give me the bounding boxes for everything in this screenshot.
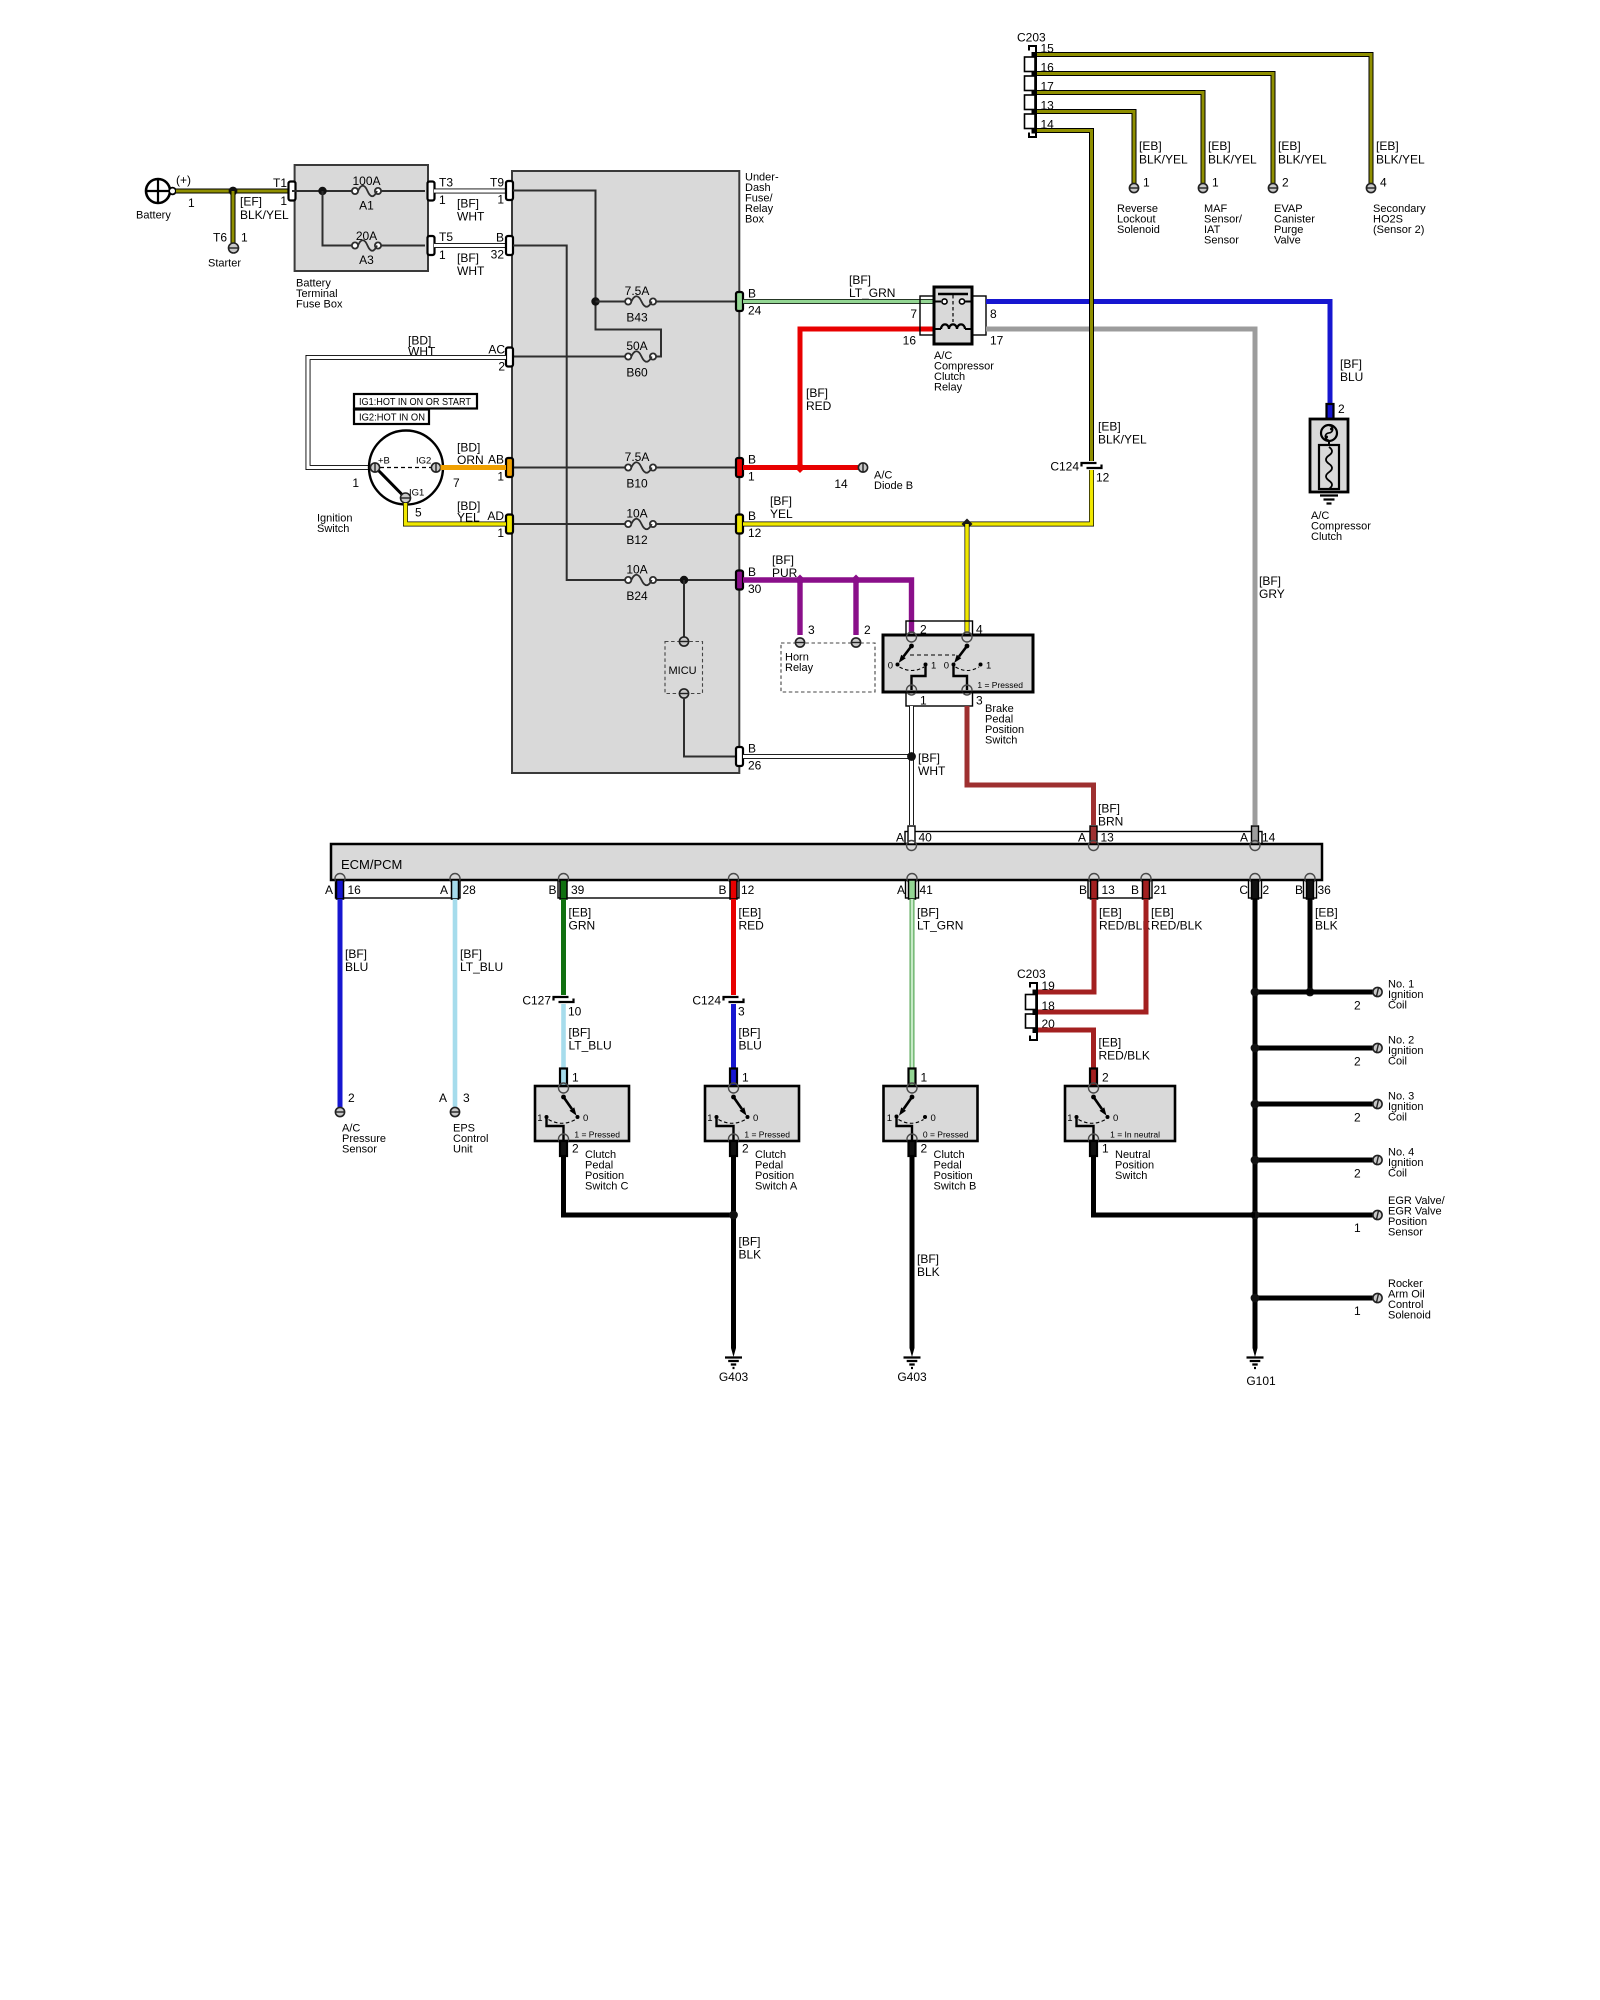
svg-text:Sensor: Sensor [342, 1144, 377, 1156]
wire C2 to G101 main (BLK) [1253, 899, 1258, 1348]
wire ignition +B to AC pin [BD] WHT [308, 334, 506, 468]
svg-text:B12: B12 [626, 533, 648, 547]
svg-text:1: 1 [352, 476, 359, 490]
svg-text:YEL: YEL [457, 511, 480, 525]
svg-text:41: 41 [920, 883, 934, 897]
svg-text:1: 1 [1354, 1221, 1361, 1235]
wire B12 pin to C124 [BF] YEL [743, 470, 1092, 524]
svg-text:BLK/YEL: BLK/YEL [1376, 153, 1425, 167]
wire junction to starter (BLK/YEL) [213, 191, 248, 245]
svg-text:[EB]: [EB] [1208, 139, 1231, 153]
wire: AD pin to fuse B12 [513, 523, 625, 525]
pin T9 [490, 176, 513, 207]
svg-text:3: 3 [738, 1005, 745, 1019]
svg-text:AB: AB [488, 453, 504, 467]
node: main junction No.1 [1251, 988, 1260, 997]
svg-text:WHT: WHT [918, 764, 946, 778]
svg-text:2: 2 [1354, 1111, 1361, 1125]
node: clutch ground junction [729, 1211, 738, 1220]
svg-text:Relay: Relay [785, 662, 814, 674]
svg-text:Clutch: Clutch [1311, 531, 1342, 543]
svg-text:(+): (+) [176, 173, 191, 187]
svg-text:Switch C: Switch C [585, 1181, 628, 1193]
ECM pin B21 [1131, 874, 1167, 900]
terminal T1 pin [273, 176, 296, 208]
pin B1 (RED out) [736, 453, 756, 484]
node: red junction [795, 462, 806, 473]
svg-text:26: 26 [748, 759, 762, 773]
svg-text:B: B [748, 509, 756, 523]
svg-text:AC: AC [488, 343, 505, 357]
node: MICU tap junction [680, 576, 688, 584]
svg-text:1: 1 [742, 1071, 749, 1085]
svg-text:3: 3 [976, 694, 983, 708]
svg-text:13: 13 [1101, 831, 1115, 845]
svg-text:1: 1 [920, 694, 927, 708]
wire clutch B pin2 to G403 [BF] BLK [912, 1156, 940, 1348]
pin B24 (LT_GRN out) [736, 287, 762, 318]
svg-text:[BF]: [BF] [457, 197, 479, 211]
svg-text:39: 39 [571, 883, 585, 897]
svg-text:1: 1 [439, 193, 446, 207]
svg-text:B: B [1079, 883, 1087, 897]
svg-text:BLK: BLK [1315, 919, 1338, 933]
svg-text:0: 0 [583, 1113, 588, 1124]
wire: B24 to pin B30 [656, 579, 736, 581]
wire T3 to T9 [BF] WHT [434, 191, 506, 224]
battery B1 [136, 179, 176, 222]
svg-text:Battery: Battery [136, 210, 171, 222]
node: purple junction 1 [795, 575, 806, 586]
wire brake pin3 to ECM A13 [BF] BRN [967, 706, 1123, 829]
svg-text:C127: C127 [522, 994, 551, 1008]
connector C203 (lower) [1017, 967, 1055, 1040]
No.1 ignition coil terminal [1354, 979, 1423, 1013]
svg-text:Sensor: Sensor [1388, 1227, 1423, 1239]
svg-text:[BF]: [BF] [918, 751, 940, 765]
No.4 ignition coil terminal [1354, 1147, 1423, 1181]
svg-text:2: 2 [348, 1091, 355, 1105]
svg-text:BLK/YEL: BLK/YEL [1139, 153, 1188, 167]
pin B30 (PUR out) [736, 565, 762, 596]
wire: junction down to A3 row [323, 191, 353, 246]
svg-text:[BF]: [BF] [345, 947, 367, 961]
node: fuse box interior junction [318, 187, 326, 195]
svg-text:Starter: Starter [208, 258, 241, 270]
svg-text:B60: B60 [626, 366, 648, 380]
node: B36 junction [1306, 988, 1315, 997]
neutral position switch [1065, 1083, 1175, 1144]
svg-text:B: B [748, 287, 756, 301]
clutch pedal position switch C [535, 1083, 629, 1144]
wire: A3 to T5 [381, 245, 425, 247]
svg-text:1: 1 [1354, 1304, 1361, 1318]
wire B13 to C203-19 [EB] RED/BLK [1038, 899, 1150, 992]
svg-text:T1: T1 [273, 176, 287, 190]
svg-text:RED: RED [739, 919, 765, 933]
wire B39 to C127 [EB] GRN [564, 899, 596, 995]
A/C compressor clutch relay [903, 287, 1004, 394]
svg-text:B24: B24 [626, 589, 648, 603]
wire clutch A pin2 to G403 [BF] BLK [734, 1156, 762, 1348]
svg-text:2: 2 [1102, 1071, 1109, 1085]
wire branch to No.4 ignition coil [1255, 1158, 1373, 1163]
svg-text:1 = In neutral: 1 = In neutral [1110, 1130, 1160, 1140]
node: main junction No.4 [1251, 1156, 1260, 1165]
svg-text:B43: B43 [626, 311, 648, 325]
wire relay pin8 to A/C clutch [BF] BLU [986, 302, 1363, 405]
node: main junction No.2 [1251, 1044, 1260, 1053]
node: battery/starter junction [229, 187, 238, 196]
node: main junction rocker [1251, 1294, 1260, 1303]
svg-text:17: 17 [990, 334, 1004, 348]
svg-text:AD: AD [487, 509, 504, 523]
svg-text:0 = Pressed: 0 = Pressed [923, 1130, 969, 1140]
wire brake pin1 to ECM A40 [BF] WHT [912, 706, 946, 825]
svg-text:Switch A: Switch A [755, 1181, 798, 1193]
wire IG2 to AB [BD] ORN [441, 441, 507, 468]
ECM pin C2 [1239, 874, 1269, 900]
ECM pin A13 [1078, 826, 1114, 851]
svg-text:Sensor: Sensor [1204, 235, 1239, 247]
clutch pedal position switch B [884, 1083, 978, 1144]
node: main junction No.3 [1251, 1100, 1260, 1109]
svg-text:A1: A1 [359, 199, 374, 213]
A/C pressure sensor terminal [335, 1091, 386, 1156]
ECM pin B39 [548, 874, 584, 900]
wire purple stub to horn relay 3 [797, 580, 802, 635]
terminal T5 pin [428, 230, 454, 262]
pin B12 (YEL out) [736, 509, 762, 540]
hot-in-run note boxes [354, 394, 477, 424]
svg-text:Coil: Coil [1388, 1056, 1407, 1068]
svg-text:1: 1 [748, 470, 755, 484]
svg-text:[EB]: [EB] [1278, 139, 1301, 153]
svg-text:[BF]: [BF] [1340, 357, 1362, 371]
ECM pin B36 [1295, 874, 1331, 900]
MICU unit [665, 637, 703, 698]
wire purple stub to horn relay 2 [853, 580, 858, 635]
svg-text:1: 1 [1143, 176, 1150, 190]
wire C203-14 to C124 (BLK/YEL) [1037, 131, 1147, 462]
wire: B12 to pin B12 [656, 523, 736, 525]
svg-text:B: B [1295, 883, 1303, 897]
svg-text:Solenoid: Solenoid [1388, 1310, 1431, 1322]
svg-text:8: 8 [990, 307, 997, 321]
wire: junction down to MICU [683, 580, 685, 637]
svg-text:19: 19 [1042, 979, 1056, 993]
node: white wire junction [907, 752, 916, 761]
svg-text:13: 13 [1102, 883, 1116, 897]
svg-text:BLK/YEL: BLK/YEL [1098, 433, 1147, 447]
svg-text:BLK/YEL: BLK/YEL [240, 208, 289, 222]
wire B21 to C203-18 [EB] RED/BLK [1038, 899, 1202, 1012]
svg-text:LT_BLU: LT_BLU [569, 1039, 612, 1053]
ground G101 [1246, 1348, 1276, 1388]
svg-text:2: 2 [864, 623, 871, 637]
svg-text:A: A [1240, 831, 1248, 845]
svg-text:16: 16 [903, 334, 917, 348]
fuse A1 100A [352, 174, 381, 213]
svg-text:Relay: Relay [934, 382, 963, 394]
wire T5 to B32 [BF] WHT [434, 246, 506, 279]
svg-text:G403: G403 [719, 1370, 749, 1384]
svg-text:Unit: Unit [453, 1144, 473, 1156]
fuse B43 7.5A [625, 284, 656, 325]
svg-text:BLU: BLU [739, 1039, 762, 1053]
svg-text:1: 1 [188, 196, 195, 210]
svg-text:BLK: BLK [917, 1265, 940, 1279]
svg-text:[EB]: [EB] [1139, 139, 1162, 153]
svg-text:YEL: YEL [770, 507, 793, 521]
svg-text:1: 1 [537, 1113, 542, 1124]
svg-text:2: 2 [572, 1142, 579, 1156]
svg-text:2: 2 [1354, 1167, 1361, 1181]
ECM lower frame B13-B21 [1088, 880, 1152, 898]
svg-text:Coil: Coil [1388, 1000, 1407, 1012]
node: purple junction 2 [851, 575, 862, 586]
svg-text:C: C [1239, 883, 1248, 897]
svg-text:GRN: GRN [569, 919, 596, 933]
svg-text:Coil: Coil [1388, 1112, 1407, 1124]
svg-text:BLU: BLU [1340, 370, 1363, 384]
svg-text:20A: 20A [356, 229, 377, 243]
svg-text:Switch: Switch [317, 523, 349, 535]
wire: A1 to T3 [381, 190, 425, 192]
svg-text:[BF]: [BF] [457, 251, 479, 265]
wire IG1 to AD [BD] YEL [406, 499, 507, 525]
svg-text:2: 2 [1263, 883, 1270, 897]
fuse B12 10A [625, 507, 656, 548]
svg-text:IG1:HOT IN ON OR START: IG1:HOT IN ON OR START [359, 396, 472, 408]
ECM lower frame A41 [906, 880, 919, 898]
ignition switch [317, 431, 460, 536]
ECM pin A16 [325, 874, 361, 900]
connector C124 (inline, BLK/YEL to YEL) [1050, 460, 1109, 485]
svg-text:7.5A: 7.5A [625, 450, 650, 464]
svg-text:7: 7 [453, 476, 460, 490]
terminal T3 pin [428, 176, 454, 208]
wire C124 to clutch A pin1 [BF] BLU [734, 1004, 762, 1068]
wire: B43 to pin B24 [656, 301, 736, 303]
svg-text:[EB]: [EB] [1315, 906, 1338, 920]
A/C diode B terminal [834, 463, 913, 492]
svg-text:1 = Pressed: 1 = Pressed [574, 1130, 620, 1140]
svg-text:[BF]: [BF] [1259, 574, 1281, 588]
secondary HO2S terminal [1366, 139, 1426, 236]
fuse A3 20A [352, 229, 381, 267]
svg-text:[EB]: [EB] [739, 906, 762, 920]
wire B26 to white junction (WHT) [743, 754, 912, 759]
svg-text:WHT: WHT [408, 345, 436, 359]
clutch switch C pin2 [560, 1141, 628, 1193]
No.3 ignition coil terminal [1354, 1091, 1423, 1125]
wire: AC pin to fuse B60 [513, 356, 625, 358]
svg-text:18: 18 [1042, 999, 1056, 1013]
pin AC [488, 343, 513, 374]
fuse B60 50A [625, 339, 656, 380]
wire: B10 to pin B1 [656, 467, 736, 469]
svg-text:ORN: ORN [457, 453, 484, 467]
wire B36 down [EB] BLK [1310, 899, 1338, 992]
svg-text:3: 3 [463, 1091, 470, 1105]
svg-text:36: 36 [1318, 883, 1332, 897]
svg-text:1: 1 [707, 1113, 712, 1124]
svg-text:14: 14 [834, 477, 848, 491]
ECM lower frame B39-B12 [558, 880, 739, 898]
svg-text:1: 1 [572, 1071, 579, 1085]
svg-text:C124: C124 [1050, 460, 1079, 474]
clutch pedal position switch A pin1 [730, 1069, 749, 1087]
clutch switch B pin2 [909, 1141, 977, 1193]
svg-text:2: 2 [1354, 1055, 1361, 1069]
wire C127 to clutch C pin1 [BF] LT_BLU [564, 1004, 612, 1068]
svg-text:BLU: BLU [345, 960, 368, 974]
svg-text:1 = Pressed: 1 = Pressed [744, 1130, 790, 1140]
svg-text:B: B [548, 883, 556, 897]
svg-text:BRN: BRN [1098, 815, 1123, 829]
svg-text:2: 2 [1338, 402, 1345, 416]
ECM pin A40 [896, 826, 932, 851]
svg-text:[EF]: [EF] [240, 195, 262, 209]
battery terminal fuse box body [295, 165, 428, 271]
EPS control unit terminal [439, 1091, 488, 1156]
horn relay [781, 623, 875, 692]
wire branch to No.3 ignition coil [1255, 1102, 1373, 1107]
svg-text:[BF]: [BF] [772, 553, 794, 567]
connector C127 (inline) [522, 994, 581, 1019]
svg-text:C124: C124 [692, 994, 721, 1008]
svg-text:[EB]: [EB] [1099, 906, 1122, 920]
wire neutral pin1 to main ground line (BLK) [1094, 1156, 1256, 1215]
svg-text:WHT: WHT [457, 264, 485, 278]
svg-text:12: 12 [748, 526, 762, 540]
svg-text:[BF]: [BF] [849, 273, 871, 287]
svg-text:1: 1 [931, 661, 936, 672]
svg-text:A: A [325, 883, 333, 897]
wire C203-13 to reverse lockout (BLK/YEL) [1037, 112, 1134, 184]
svg-text:[BF]: [BF] [739, 1235, 761, 1249]
svg-text:7: 7 [910, 307, 917, 321]
wire A41 to clutch B pin1 [BF] LT_GRN [912, 899, 963, 1068]
svg-text:[BF]: [BF] [917, 1252, 939, 1266]
svg-text:1: 1 [241, 231, 248, 245]
under-dash fuse/relay box body [512, 171, 739, 773]
svg-text:Solenoid: Solenoid [1117, 224, 1160, 236]
node: main junction EGR [1251, 1211, 1260, 1220]
svg-text:RED: RED [806, 399, 832, 413]
svg-text:[EB]: [EB] [1151, 906, 1174, 920]
svg-text:BLK: BLK [739, 1248, 762, 1262]
wire C203-20 to neutral switch pin2 [EB] RED/BLK [1038, 1030, 1150, 1068]
wire A28 to EPS control unit [BF] LT_BLU [455, 899, 503, 1107]
svg-text:12: 12 [741, 883, 755, 897]
svg-text:T6: T6 [213, 231, 227, 245]
svg-text:10A: 10A [626, 507, 647, 521]
svg-text:Switch B: Switch B [934, 1181, 977, 1193]
neutral switch pin1 [1090, 1141, 1154, 1182]
svg-text:1: 1 [439, 248, 446, 262]
wire C203-16 to EVAP (BLK/YEL) [1037, 74, 1273, 184]
No.2 ignition coil terminal [1354, 1035, 1423, 1069]
clutch pedal position switch B pin1 [909, 1069, 928, 1087]
svg-text:1: 1 [497, 193, 504, 207]
svg-text:ECM/PCM: ECM/PCM [341, 857, 402, 872]
svg-text:IG2: IG2 [416, 456, 431, 467]
wire B12 to C124 [EB] RED [734, 899, 765, 995]
svg-text:T9: T9 [490, 176, 504, 190]
svg-text:B: B [748, 565, 756, 579]
pin B26 (WHT out) [736, 742, 762, 773]
svg-text:A: A [439, 1091, 447, 1105]
svg-text:[EB]: [EB] [1376, 139, 1399, 153]
EGR valve terminal [1354, 1195, 1446, 1239]
svg-text:BLK/YEL: BLK/YEL [1278, 153, 1327, 167]
svg-text:MICU: MICU [669, 665, 697, 677]
svg-text:+B: +B [378, 456, 390, 467]
svg-text:IG1: IG1 [409, 488, 424, 499]
MAF/IAT sensor terminal [1198, 139, 1257, 247]
pin AB (ORN in) [488, 453, 513, 484]
wire: T9 feed to B43/B60 node [513, 191, 596, 302]
reverse lockout solenoid terminal [1117, 139, 1188, 236]
neutral position switch pin2 [1090, 1069, 1109, 1087]
wire A16 to A/C pressure sensor [BF] BLU [340, 899, 368, 1107]
ECM pin B12 [718, 874, 754, 900]
ground G403 (right) [897, 1348, 927, 1384]
connector C124 (inline, lower) [692, 994, 745, 1019]
svg-text:1: 1 [986, 661, 991, 672]
A/C compressor clutch pin 2 [1327, 402, 1346, 419]
ECM pin A41 [897, 874, 933, 900]
svg-text:RED/BLK: RED/BLK [1099, 1049, 1150, 1063]
svg-text:28: 28 [463, 883, 477, 897]
svg-text:0: 0 [931, 1113, 936, 1124]
svg-text:(Sensor 2): (Sensor 2) [1373, 224, 1424, 236]
fuse B24 10A [625, 563, 656, 604]
svg-text:0: 0 [753, 1113, 758, 1124]
svg-text:1: 1 [1102, 1142, 1109, 1156]
svg-text:LT_BLU: LT_BLU [460, 960, 503, 974]
svg-text:Diode B: Diode B [874, 480, 913, 492]
svg-text:B: B [748, 742, 756, 756]
svg-text:[EB]: [EB] [569, 906, 592, 920]
svg-text:A: A [440, 883, 448, 897]
clutch pedal position switch A [705, 1083, 799, 1144]
svg-text:50A: 50A [626, 339, 647, 353]
wire junction down to brake pin4 (YEL) [965, 524, 970, 633]
svg-text:B: B [748, 453, 756, 467]
wire relay pin16 to B1 [BF] RED [743, 329, 934, 468]
svg-text:A: A [897, 883, 905, 897]
svg-text:3: 3 [808, 623, 815, 637]
ECM pin B13 [1079, 874, 1115, 900]
svg-text:LT_GRN: LT_GRN [849, 286, 895, 300]
svg-text:Valve: Valve [1274, 235, 1301, 247]
wire relay pin17 to ECM A14 [BF] GRY [986, 329, 1285, 825]
ECM connector A frame (top) [905, 832, 1262, 845]
svg-text:14: 14 [1262, 831, 1276, 845]
svg-text:G101: G101 [1246, 1374, 1276, 1388]
svg-text:[BF]: [BF] [460, 947, 482, 961]
ECM pin A14 [1240, 826, 1276, 851]
svg-text:4: 4 [1380, 176, 1387, 190]
svg-text:Coil: Coil [1388, 1168, 1407, 1180]
wire branch to No.2 ignition coil [1255, 1046, 1373, 1051]
wire branch to No.1 ignition coil [1255, 990, 1373, 995]
ECM lower frame B36 [1304, 880, 1317, 898]
svg-text:1: 1 [887, 1113, 892, 1124]
